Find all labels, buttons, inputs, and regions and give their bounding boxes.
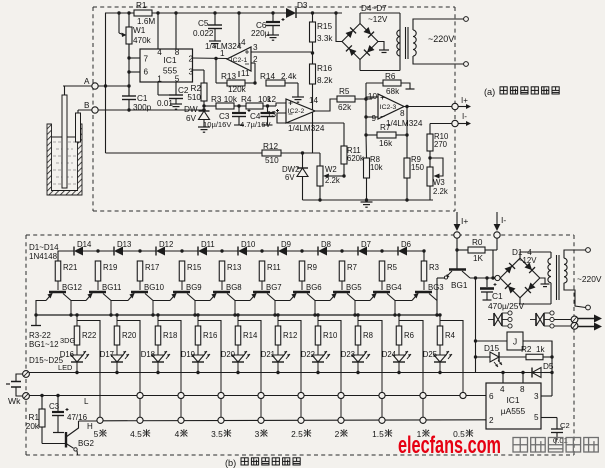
svg-text:D3: D3 — [297, 1, 308, 10]
node R13-R14 — [253, 81, 256, 84]
svg-text:14: 14 — [309, 96, 319, 105]
svg-text:BG2: BG2 — [78, 439, 95, 448]
terminal 220V bottom — [464, 62, 469, 67]
svg-text:R2: R2 — [191, 84, 202, 93]
svg-text:0.022: 0.022 — [193, 29, 214, 38]
terminal B — [92, 107, 98, 113]
diode D13 — [98, 250, 114, 252]
svg-text:620k: 620k — [347, 154, 364, 163]
node wires at IC1 left — [127, 56, 130, 59]
svg-text:10µ/16V: 10µ/16V — [203, 120, 232, 129]
transformer T1 secondary — [413, 30, 416, 37]
svg-text:C2: C2 — [560, 421, 570, 430]
wire ground rail of box a — [303, 199, 434, 201]
svg-text:3: 3 — [534, 392, 539, 401]
meter sense wire 2&#31859; — [340, 373, 342, 425]
terminal Wk top — [23, 371, 30, 378]
svg-text:9: 9 — [371, 114, 376, 123]
node diode bus at D11 — [180, 249, 183, 252]
zener DW 6V — [203, 101, 205, 111]
meter sense wire 3&#31859; — [260, 373, 262, 425]
resistor R16 row2 — [197, 315, 199, 326]
resistor R14 2.4k — [266, 80, 285, 86]
svg-text:R6: R6 — [385, 72, 396, 81]
svg-text:300p: 300p — [133, 103, 152, 112]
svg-text:470µ/25V: 470µ/25V — [488, 301, 524, 311]
potentiometer W3 2.2k — [427, 167, 433, 186]
svg-text:R19: R19 — [103, 263, 117, 272]
node A junction — [127, 84, 130, 87]
capacitor C5 0.022 — [214, 13, 216, 25]
resistor R19 row1 — [95, 261, 101, 281]
terminal I- output — [452, 120, 458, 126]
svg-text:BG11: BG11 — [102, 283, 121, 292]
svg-text:10k: 10k — [370, 163, 383, 172]
svg-text:0.01: 0.01 — [157, 99, 173, 108]
svg-text:R22: R22 — [82, 331, 96, 340]
svg-text:150: 150 — [411, 163, 425, 172]
resistor R8 10k — [365, 135, 368, 158]
svg-text:D14: D14 — [77, 240, 92, 249]
terminal A — [92, 83, 98, 89]
node H circle 4.5&#31859; — [137, 417, 143, 423]
node H circle 4&#31859; — [178, 417, 184, 423]
resistor R2 510 — [203, 70, 205, 83]
svg-text:~12V: ~12V — [518, 256, 537, 265]
resistor R1 — [134, 10, 152, 16]
wire bridge loop — [359, 13, 361, 24]
svg-text:R21: R21 — [63, 263, 77, 272]
svg-text:2.4k: 2.4k — [281, 72, 297, 81]
svg-text:8: 8 — [520, 385, 525, 394]
svg-text:~220V: ~220V — [428, 34, 454, 44]
wire lower rail y153 — [106, 152, 263, 154]
watermark chinese — [513, 438, 528, 453]
wire R4 to IC2-2 — [263, 105, 276, 107]
LED D21 — [272, 355, 284, 362]
svg-text:D13: D13 — [117, 240, 131, 249]
svg-text:D6: D6 — [401, 240, 411, 249]
pin 3 of IC2-1 — [251, 51, 313, 53]
node diode bus at D6 — [380, 249, 383, 252]
wire R5 to IC2-3 pin10 — [372, 97, 378, 99]
LED D17 — [111, 355, 123, 362]
svg-text:D1~D14: D1~D14 — [29, 243, 59, 252]
resistor R20 row2 — [116, 315, 118, 326]
capacitor C3 10u/16V — [238, 106, 240, 113]
resistor R14 row2 — [237, 315, 239, 326]
svg-text:11: 11 — [241, 69, 250, 78]
svg-text:4.7µ/16V: 4.7µ/16V — [240, 120, 271, 129]
transistor BG6 — [293, 291, 310, 294]
svg-text:R5: R5 — [339, 87, 350, 96]
node L circle 3&#31859; — [258, 392, 264, 398]
wire from B electrode line — [78, 109, 204, 111]
wire common bus 315 — [36, 314, 437, 316]
electrode B (short) — [77, 110, 79, 113]
svg-text:1N4148: 1N4148 — [29, 252, 58, 261]
svg-text:1k: 1k — [536, 345, 546, 354]
svg-text:5: 5 — [94, 429, 99, 439]
svg-text:D25: D25 — [423, 350, 438, 359]
terminal 220V b top — [586, 248, 591, 253]
wire bracket to meter line 2&#31859; — [318, 321, 341, 373]
wire R6 input node vertical — [365, 83, 367, 135]
svg-text:16k: 16k — [379, 139, 393, 148]
svg-text:R12: R12 — [283, 331, 297, 340]
ground symbol box a — [366, 200, 368, 202]
svg-text:BG1: BG1 — [451, 281, 468, 290]
node L circle 1.5&#31859; — [379, 392, 385, 398]
svg-text:µA555: µA555 — [501, 406, 526, 416]
svg-text:R3-22: R3-22 — [29, 331, 51, 340]
svg-text:220µ: 220µ — [251, 29, 270, 38]
capacitor C1 470u/25V — [486, 278, 488, 287]
svg-text:4: 4 — [175, 429, 180, 439]
pin 5 of uA555 — [541, 417, 557, 419]
svg-text:1: 1 — [220, 49, 225, 58]
svg-text:1/4LM324: 1/4LM324 — [386, 119, 423, 128]
pin 4 of uA555 — [502, 373, 504, 384]
svg-text:D10: D10 — [241, 240, 256, 249]
wire bracket to meter line 0.5&#31859; — [440, 321, 463, 373]
capacitor C2 0.01 — [169, 94, 183, 96]
svg-text:2: 2 — [335, 429, 340, 439]
dashed border of control box (a) — [93, 6, 455, 8]
resistor R11 620k — [343, 123, 345, 146]
node H circle 3&#31859; — [258, 417, 264, 423]
svg-text:R7: R7 — [380, 123, 391, 132]
svg-text:R4: R4 — [445, 331, 456, 340]
transformer T2 secondary — [564, 258, 567, 264]
wire bracket to meter line 4&#31859; — [158, 321, 181, 373]
wire left vertical from rail down — [105, 13, 107, 153]
resistor R21 row1 — [55, 261, 61, 281]
op-amp IC1 555 box — [140, 49, 193, 82]
resistor R1 20k box b — [41, 396, 43, 409]
svg-text:1.6M: 1.6M — [137, 17, 155, 26]
svg-text:D24: D24 — [382, 350, 397, 359]
resistor R6 row2 — [398, 315, 400, 326]
wire IC2-3 output — [404, 106, 452, 108]
node L circle 3.5&#31859; — [218, 392, 224, 398]
svg-text:4: 4 — [241, 38, 246, 47]
svg-text:elecfans.com: elecfans.com — [398, 432, 501, 459]
LED D22 — [312, 355, 324, 362]
svg-text:R13: R13 — [221, 72, 236, 81]
svg-text:B: B — [84, 101, 90, 110]
svg-text:D11: D11 — [201, 240, 215, 249]
svg-text:4: 4 — [500, 385, 505, 394]
svg-text:DW: DW — [184, 105, 198, 114]
svg-text:8: 8 — [175, 48, 180, 57]
svg-text:R9: R9 — [307, 263, 317, 272]
meter sense wire 4&#31859; — [180, 373, 182, 425]
svg-text:R5: R5 — [387, 263, 398, 272]
resistor R6 68k — [366, 82, 383, 84]
node H circle 1.5&#31859; — [379, 417, 385, 423]
resistor R15 3.3k — [312, 13, 314, 22]
svg-text:Wk: Wk — [8, 396, 21, 406]
svg-text:R15: R15 — [187, 263, 202, 272]
diode D14 — [58, 250, 74, 252]
terminal I+ output — [452, 103, 458, 109]
bridge rectifier D1~4 — [500, 258, 540, 298]
LED D20 — [232, 355, 244, 362]
resistor R12 510 — [262, 150, 281, 156]
resistor R5 62k — [337, 96, 355, 102]
svg-text:7: 7 — [144, 55, 149, 64]
svg-text:C1: C1 — [492, 291, 503, 301]
wire BG1 rail to J — [475, 278, 477, 372]
node H circle 3.5&#31859; — [218, 417, 224, 423]
resistor R4 10k — [246, 103, 263, 109]
water level lines in tank — [52, 136, 78, 138]
potentiometer W1 470k — [128, 13, 130, 27]
resistor R4 row2 — [439, 315, 441, 326]
wire R3-R4 — [234, 105, 246, 107]
pin 11 of IC2-1 — [238, 71, 240, 77]
terminal 220V b bottom — [586, 305, 591, 310]
node diode bus at D13 — [96, 249, 99, 252]
svg-text:R17: R17 — [145, 263, 159, 272]
wire from A electrode line — [63, 85, 129, 87]
wire secondary to terminals — [413, 19, 464, 30]
svg-text:BG8: BG8 — [226, 283, 242, 292]
svg-text:R0: R0 — [472, 238, 483, 247]
svg-text:68k: 68k — [386, 87, 400, 96]
wire I+ to R0/BG1 — [456, 238, 458, 269]
svg-text:BG9: BG9 — [186, 283, 202, 292]
svg-text:L: L — [84, 397, 89, 406]
svg-text:6V: 6V — [285, 173, 295, 182]
svg-text:~220V: ~220V — [577, 274, 602, 284]
wire top supply rail — [105, 12, 288, 14]
diode D6 — [382, 250, 398, 252]
svg-text:J: J — [513, 337, 517, 347]
meter sense wire 1.5&#31859; — [381, 373, 383, 425]
node diode bus at D8 — [300, 249, 303, 252]
dashed border of monitor box (b) — [26, 234, 574, 236]
svg-text:510: 510 — [187, 93, 201, 102]
resistor R3 10k — [216, 103, 234, 109]
svg-text:W3: W3 — [433, 178, 445, 187]
bus left end stub — [35, 315, 37, 325]
resistor R13 120k — [216, 82, 227, 84]
meter sense wire 5&#31859; — [99, 373, 101, 425]
diode D11 — [182, 250, 198, 252]
node L circle 1&#31859; — [420, 392, 426, 398]
svg-text:W2: W2 — [325, 165, 337, 174]
svg-text:LED: LED — [58, 363, 72, 372]
svg-text:D20: D20 — [221, 350, 236, 359]
svg-text:A: A — [84, 77, 90, 86]
wire bracket to meter line 4.5&#31859; — [117, 321, 140, 373]
wire diode bus start — [58, 251, 66, 261]
resistor R8 row2 — [357, 315, 359, 326]
wire diode bus end to R3 — [423, 251, 425, 261]
svg-text:BG12: BG12 — [62, 283, 82, 292]
meter sense wire 1&#31859; — [422, 373, 424, 425]
svg-text:5: 5 — [534, 413, 539, 422]
node H circle 1&#31859; — [420, 417, 426, 423]
resistor R3 row1 — [421, 261, 427, 281]
transistor BG3 — [415, 291, 432, 294]
svg-text:D19: D19 — [181, 350, 195, 359]
svg-text:R3: R3 — [429, 263, 439, 272]
node R15-R16 junction — [311, 51, 314, 54]
LED D19 — [192, 355, 204, 362]
wire main rail 372 — [29, 372, 552, 374]
svg-text:120k: 120k — [228, 85, 247, 94]
capacitor C1 300p — [122, 95, 136, 97]
terminal I- input box b — [494, 232, 500, 238]
pin 4 of IC2-1 — [238, 13, 240, 47]
transistor BG12 — [49, 291, 66, 294]
svg-text:8.2k: 8.2k — [317, 76, 333, 85]
resistor R10 row2 — [317, 315, 319, 326]
node diode bus at D9 — [260, 249, 263, 252]
transistor BG11 — [89, 291, 106, 294]
svg-text:470k: 470k — [133, 36, 152, 45]
resistor R2 1k box b — [499, 356, 526, 358]
node H circle 2&#31859; — [338, 417, 344, 423]
svg-text:2.2k: 2.2k — [325, 176, 340, 185]
wire bracket to meter line 3.5&#31859; — [198, 321, 221, 373]
svg-text:R14: R14 — [260, 72, 275, 81]
transistor BG1 — [449, 268, 466, 271]
transformer T1 core — [405, 27, 407, 59]
potentiometer W2 2.2k — [319, 153, 321, 166]
wire I- line — [430, 123, 452, 125]
svg-text:1.5: 1.5 — [372, 429, 384, 439]
svg-text:IC2-3: IC2-3 — [380, 104, 397, 111]
wire R1 to BG2 base — [42, 443, 66, 445]
wire bridge feed — [336, 13, 342, 42]
LED D16 — [71, 355, 83, 362]
svg-text:D17: D17 — [100, 350, 114, 359]
svg-text:R1: R1 — [136, 1, 147, 10]
svg-text:2.2k: 2.2k — [433, 187, 448, 196]
relay contact J-2 — [535, 313, 537, 326]
svg-text:D22: D22 — [301, 350, 315, 359]
LED D23 — [352, 355, 364, 362]
diode D3 — [286, 8, 296, 18]
svg-text:2: 2 — [489, 416, 494, 425]
resistor R16 8.2k — [310, 64, 316, 84]
pin 8 of uA555 — [522, 373, 524, 384]
svg-text:8: 8 — [400, 109, 405, 118]
LED D15 — [476, 356, 491, 358]
svg-text:BG7: BG7 — [266, 283, 282, 292]
svg-text:D7: D7 — [361, 240, 371, 249]
svg-text:R3 10k: R3 10k — [211, 95, 238, 104]
node L circle 2&#31859; — [338, 392, 344, 398]
wire contact J-2 to output — [555, 319, 572, 321]
diode D9 — [262, 250, 278, 252]
meter sense wire 3.5&#31859; — [220, 373, 222, 425]
LED D25 — [434, 355, 446, 362]
capacitor C2 0.01 box b — [556, 418, 558, 430]
svg-text:R13: R13 — [227, 263, 241, 272]
svg-text:R18: R18 — [163, 331, 177, 340]
diode D8 — [302, 250, 318, 252]
output plug symbols — [571, 316, 578, 323]
wire W1/pins vertical — [128, 44, 130, 96]
wire L bus — [29, 395, 486, 397]
timer IC1 uA555 box b — [486, 383, 541, 429]
ground at bridge right corner — [378, 42, 384, 51]
transistor BG9 — [173, 291, 190, 294]
transistor BG10 — [131, 291, 148, 294]
diode D7 — [342, 250, 358, 252]
svg-text:6: 6 — [144, 68, 149, 77]
node L circle 4.5&#31859; — [137, 392, 143, 398]
zener DW2 6V — [302, 153, 304, 168]
ground at bridge b right — [540, 278, 545, 284]
svg-text:BG4: BG4 — [386, 283, 402, 292]
svg-text:I+: I+ — [461, 96, 468, 105]
svg-text:6: 6 — [489, 392, 494, 401]
svg-text:BG5: BG5 — [346, 283, 362, 292]
svg-text:R1: R1 — [29, 413, 40, 422]
op-amp IC2-3 (1/4LM324) — [378, 94, 404, 119]
transistor BG8 — [213, 291, 230, 294]
transformer T2 primary — [548, 258, 551, 264]
svg-text:4: 4 — [157, 48, 162, 57]
svg-text:I+: I+ — [461, 216, 468, 226]
svg-text:4.5: 4.5 — [130, 429, 142, 439]
svg-text:BG10: BG10 — [144, 283, 165, 292]
transistor BG2 — [65, 432, 67, 448]
diode D5 — [544, 372, 552, 374]
svg-text:R14: R14 — [243, 331, 258, 340]
svg-text:3.5: 3.5 — [211, 429, 223, 439]
svg-text:(b): (b) — [225, 458, 236, 468]
svg-text:D18: D18 — [141, 350, 155, 359]
svg-text:510: 510 — [265, 156, 279, 165]
svg-text:R16: R16 — [317, 64, 332, 73]
svg-text:R6: R6 — [404, 331, 414, 340]
transformer T1 primary — [397, 30, 400, 37]
meter sense wire 4.5&#31859; — [139, 373, 141, 425]
svg-text:C3: C3 — [49, 402, 60, 411]
resistor R10 270 — [429, 124, 431, 135]
resistor R0 1K — [457, 249, 468, 251]
resistor R7 row1 — [339, 261, 345, 281]
wire I- down — [496, 238, 498, 250]
svg-text:3: 3 — [189, 68, 194, 77]
svg-text:20k: 20k — [26, 422, 40, 431]
svg-text:C5: C5 — [198, 19, 209, 28]
svg-text:3DG: 3DG — [60, 336, 75, 345]
svg-text:3: 3 — [253, 43, 258, 52]
wire D5 node — [551, 341, 553, 396]
svg-text:BG1~12: BG1~12 — [29, 340, 59, 349]
svg-text:62k: 62k — [338, 103, 352, 112]
svg-text:R4: R4 — [241, 95, 252, 104]
wire BG1 collector rail — [470, 277, 495, 279]
node diode bus at D7 — [340, 249, 343, 252]
node L circle 4&#31859; — [178, 392, 184, 398]
capacitor C3 47/16 box b — [57, 396, 59, 412]
resistor R17 row1 — [137, 261, 143, 281]
svg-text:BG6: BG6 — [306, 283, 322, 292]
electrode A (long) — [64, 86, 66, 95]
switch Wk — [16, 374, 23, 381]
svg-text:R7: R7 — [347, 263, 357, 272]
svg-text:R16: R16 — [203, 331, 217, 340]
